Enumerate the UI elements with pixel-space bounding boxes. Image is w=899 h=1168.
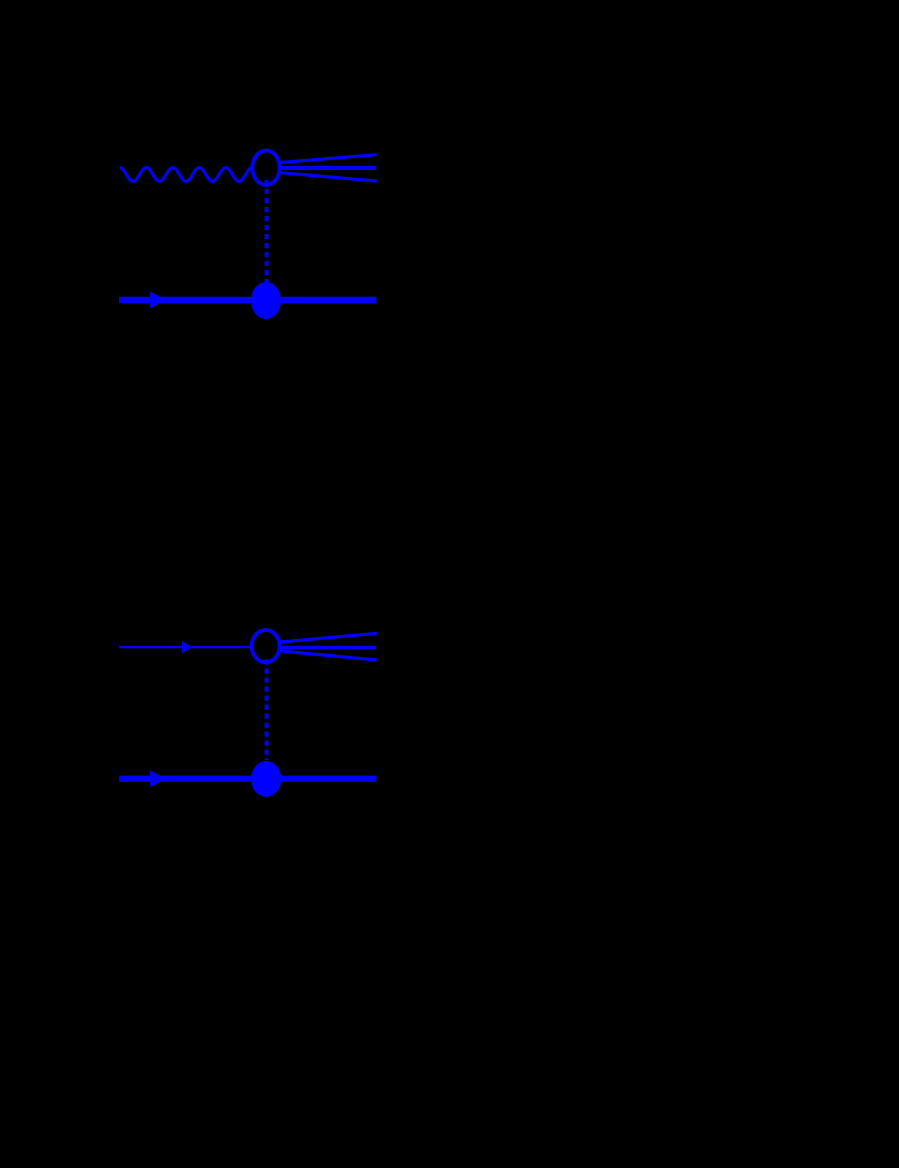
proton line (top diagram, thick): [119, 297, 376, 303]
proton arrow (bottom diagram): [150, 771, 166, 787]
jet line 3 (top diagram, lower): [281, 173, 377, 181]
jet line 1 (bottom diagram, upper): [281, 633, 377, 642]
vertex circle (bottom diagram, open blob): [252, 630, 280, 662]
incoming parton line (bottom diagram, thin): [119, 646, 250, 648]
jet line 1 (top diagram, upper): [281, 155, 377, 163]
jet line 3 (bottom diagram, lower): [281, 651, 377, 660]
proton arrow (top diagram): [150, 292, 166, 308]
dashed pomeron exchange line (top diagram): [265, 180, 269, 285]
vertex circle (top diagram, open blob): [252, 151, 279, 185]
parton arrow (bottom diagram, small): [182, 641, 192, 653]
jet line 2 (bottom diagram, middle): [281, 646, 377, 649]
proton blob (top diagram, filled): [251, 282, 281, 319]
proton blob (bottom diagram, filled): [251, 761, 281, 797]
proton line (bottom diagram, thick): [119, 776, 376, 782]
jet line 2 (top diagram, middle): [281, 166, 377, 170]
dashed pomeron exchange line (bottom diagram): [265, 660, 269, 761]
photon wavy line (gamma): [120, 168, 252, 182]
